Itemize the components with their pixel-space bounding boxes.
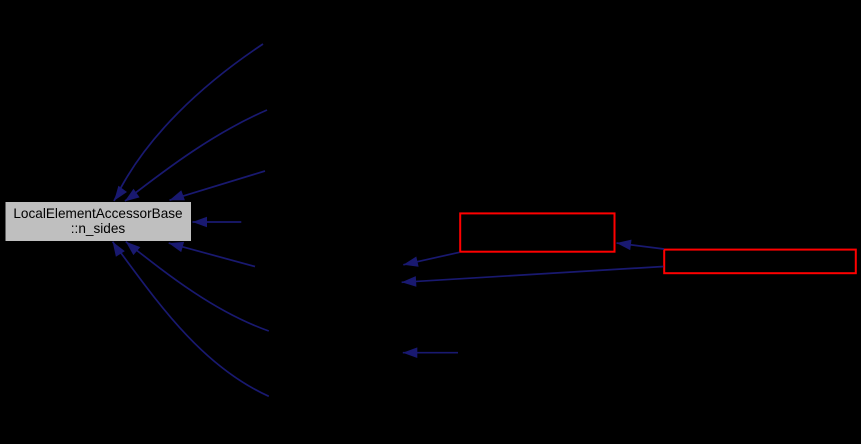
edge k: short horizontal arrow at lower middle <box>403 352 458 354</box>
arrowhead k <box>403 347 418 358</box>
node N3: red outlined box (lower right) <box>664 250 856 274</box>
edge j: red box N3 -> red box N2 <box>617 243 665 249</box>
edge i: red box N3 -> middle node (long) <box>402 267 664 283</box>
node N1: LocalElementAccessorBase::n_sides (gray filled box) <box>5 202 192 242</box>
edge e: caller row 5 -> n_sides <box>169 243 255 266</box>
arrowhead j <box>617 240 632 251</box>
edge c: caller row 3 -> n_sides <box>170 171 266 200</box>
arrowhead h <box>403 257 418 267</box>
arrowhead e <box>169 242 184 252</box>
arrowhead b <box>125 189 140 202</box>
arrowhead d <box>193 217 208 228</box>
edge a: caller row 1 -> n_sides (top long curve) <box>114 44 263 201</box>
edge f: caller row 6 -> n_sides <box>126 242 269 331</box>
node N2: red outlined box (upper) <box>460 213 614 251</box>
arrowhead c <box>170 190 185 200</box>
edge b: caller row 2 -> n_sides <box>125 110 267 201</box>
arrowhead g <box>113 242 125 257</box>
edge d: caller row 4 -> n_sides (horizontal) <box>193 221 242 223</box>
svg-text:LocalElementAccessorBase: LocalElementAccessorBase <box>13 206 182 221</box>
svg-text:::n_sides: ::n_sides <box>71 221 126 236</box>
arrowhead a <box>114 186 127 201</box>
edge h: red box N2 -> middle node <box>403 252 459 264</box>
arrowhead f <box>126 242 141 255</box>
edge g: caller row 7 -> n_sides (bottom long curve) <box>113 242 269 397</box>
arrowhead i <box>402 276 417 287</box>
